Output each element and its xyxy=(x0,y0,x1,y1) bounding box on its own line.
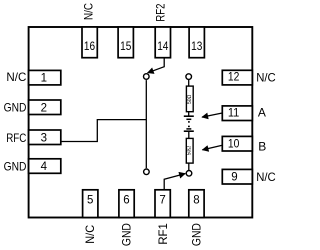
pin 3 xyxy=(29,130,61,145)
label N/C pin 1 xyxy=(6,70,26,84)
pin 6 xyxy=(119,190,134,218)
svg-text:50Ω: 50Ω xyxy=(187,146,193,156)
pin 11 xyxy=(222,106,252,121)
pin 12 xyxy=(222,70,252,85)
svg-text:RFC: RFC xyxy=(6,131,26,145)
svg-text:N/C: N/C xyxy=(81,3,95,20)
ground (inverted, above R2) xyxy=(184,126,194,131)
svg-text:12: 12 xyxy=(228,72,240,84)
svg-text:50Ω: 50Ω xyxy=(187,94,193,104)
wire control A arrow (pin 11 to ground of R1) xyxy=(202,113,222,117)
pin 7 xyxy=(155,190,170,218)
switch contact circle (termination bottom node) xyxy=(186,171,192,177)
svg-text:1: 1 xyxy=(41,72,47,84)
svg-text:N/C: N/C xyxy=(83,225,97,244)
svg-text:16: 16 xyxy=(84,41,95,53)
switch arm wire (vertical pole) xyxy=(145,80,147,168)
svg-text:GND: GND xyxy=(4,159,27,173)
svg-text:N/C: N/C xyxy=(6,70,26,84)
svg-text:N/C: N/C xyxy=(256,70,276,84)
pin 16 xyxy=(82,27,97,58)
svg-text:9: 9 xyxy=(231,171,237,183)
switch contact circle (RF1 throw / termination top node) xyxy=(186,74,192,80)
package outline xyxy=(29,27,253,218)
svg-text:8: 8 xyxy=(193,195,199,207)
svg-text:11: 11 xyxy=(228,108,240,120)
svg-text:10: 10 xyxy=(228,139,240,151)
label N/C pin 12 xyxy=(256,70,276,84)
pin 5 xyxy=(83,190,98,218)
wire RFC trace (pin 3 to switch pole) xyxy=(61,120,147,142)
pin 9 xyxy=(222,169,252,184)
resistor R2 50 ohm (lower termination) xyxy=(186,131,193,170)
wire RF1 (pin 7 up to arrow at termination node) xyxy=(164,174,185,190)
label RFC pin 3 xyxy=(6,131,26,145)
svg-text:14: 14 xyxy=(157,41,169,53)
svg-text:4: 4 xyxy=(41,161,48,173)
label GND pin 4 xyxy=(4,159,27,173)
label B pin 10 xyxy=(258,139,266,153)
svg-text:RF1: RF1 xyxy=(156,223,170,245)
svg-text:2: 2 xyxy=(41,102,47,114)
wire control B arrow (pin 10 to R2) xyxy=(202,145,222,150)
ground (below R1) xyxy=(184,116,194,122)
svg-text:15: 15 xyxy=(120,41,131,53)
pin 4 xyxy=(29,159,61,174)
resistor R1 50 ohm (upper termination) xyxy=(186,80,193,116)
pin 15 xyxy=(118,27,133,58)
svg-text:N/C: N/C xyxy=(256,170,276,184)
svg-text:GND: GND xyxy=(119,223,133,246)
pin 14 xyxy=(155,27,170,58)
svg-text:RF2: RF2 xyxy=(153,3,167,21)
pin 13 xyxy=(189,27,204,58)
svg-text:GND: GND xyxy=(189,223,203,246)
svg-text:6: 6 xyxy=(123,195,129,207)
svg-text:5: 5 xyxy=(87,195,93,207)
label GND pin 6 (rotated) xyxy=(119,223,133,246)
svg-text:13: 13 xyxy=(191,41,202,53)
pin 8 xyxy=(189,190,204,218)
svg-text:3: 3 xyxy=(41,132,47,144)
label GND pin 8 (rotated) xyxy=(189,223,203,246)
pin 1 xyxy=(29,70,61,85)
svg-text:7: 7 xyxy=(159,195,165,207)
svg-text:GND: GND xyxy=(4,101,27,115)
label N/C pin 16 (rotated) xyxy=(81,3,95,20)
pin 10 xyxy=(222,136,252,151)
label N/C pin 5 (rotated) xyxy=(83,225,97,244)
label GND pin 2 xyxy=(4,101,27,115)
label N/C pin 9 xyxy=(256,170,276,184)
svg-text:A: A xyxy=(258,106,266,120)
switch contact circle (RF2 throw) xyxy=(144,74,150,80)
pin 2 xyxy=(29,100,61,115)
label RF2 pin 14 (rotated) xyxy=(153,3,167,21)
svg-text:B: B xyxy=(258,139,266,153)
label RF1 pin 7 (rotated) xyxy=(156,223,170,245)
wire RF2 (pin 14 down to arrow at switch contact) xyxy=(148,58,165,73)
switch contact circle (arm bottom, open) xyxy=(144,169,150,175)
label A pin 11 xyxy=(258,106,266,120)
